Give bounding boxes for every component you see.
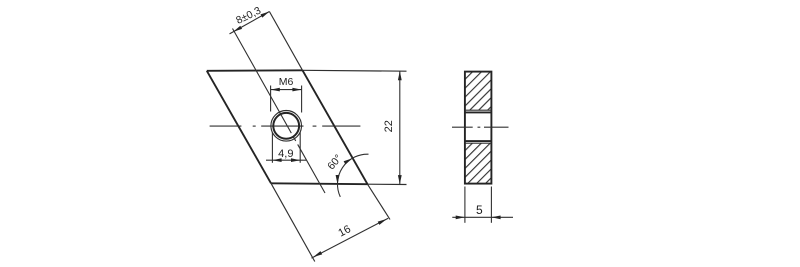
hole line thick bottom: [465, 140, 492, 142]
svg-text:4,9: 4,9: [278, 148, 293, 160]
M6 extension line right: [301, 86, 303, 113]
4,9 arrow right: [291, 158, 300, 162]
M6 extension line left: [270, 86, 272, 112]
svg-text:M6: M6: [279, 76, 294, 88]
5 arrow right (outside): [491, 216, 500, 220]
bottom hatched block: [465, 143, 492, 183]
top edge extension line (to 22 dim): [303, 69, 407, 72]
svg-text:5: 5: [476, 203, 483, 217]
top edge: [207, 69, 303, 72]
4,9 extension line right: [299, 132, 301, 163]
hole circle inner (4.9 drill, thick): [273, 113, 299, 139]
right edge extension up (8±0,3 dim): [269, 12, 302, 71]
4,9 arrow left: [272, 158, 281, 162]
4,9 extension line left: [271, 132, 273, 162]
hole circle outer (thread M6, thin): [271, 111, 302, 142]
5 extension line left: [464, 187, 466, 223]
60° arrow upper: [344, 158, 353, 164]
side view centerline: [452, 126, 509, 128]
left edge extension (16 dim): [271, 183, 315, 261]
svg-text:22: 22: [383, 120, 395, 132]
5 arrow left (outside): [456, 216, 465, 220]
5 extension line right: [490, 187, 492, 223]
horizontal centerline: [210, 125, 361, 127]
top hatched block: [465, 72, 492, 111]
M6 dimension line: [271, 89, 302, 91]
M6 arrow right: [292, 88, 301, 92]
22 arrow top: [398, 71, 402, 80]
M6 arrow left: [271, 88, 280, 92]
section outline rectangle: [465, 72, 492, 184]
16 arrow left: [313, 251, 322, 257]
16 arrow right: [378, 219, 387, 225]
right edge extension down (16 dim): [368, 184, 391, 219]
8±0,3 arrow left: [233, 26, 242, 32]
60° arrow lower: [336, 175, 340, 184]
right edge: [303, 70, 368, 184]
5 dimension line: [452, 216, 513, 218]
8±0,3 dimension line: [230, 12, 270, 34]
8±0,3 arrow right: [261, 12, 270, 18]
22 arrow bottom: [398, 175, 402, 184]
16 dimension line: [312, 218, 389, 258]
bottom edge: [271, 182, 368, 185]
oblique centerline through hole: [233, 29, 326, 194]
4,9 dimension line: [266, 159, 306, 161]
hole line thick top: [465, 111, 492, 113]
bottom edge extension line (to 22 dim): [368, 183, 407, 185]
left edge: [207, 71, 271, 184]
thread line thin bottom: [465, 142, 492, 144]
thread line thin top: [465, 109, 492, 111]
60° angle dimension arc: [337, 154, 368, 197]
22 dimension line: [399, 71, 401, 184]
